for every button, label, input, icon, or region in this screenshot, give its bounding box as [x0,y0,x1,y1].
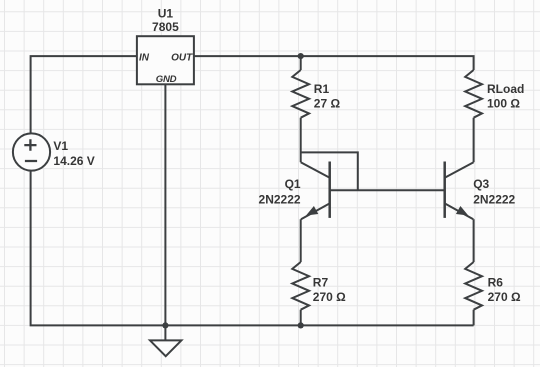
svg-text:270 Ω: 270 Ω [488,290,521,304]
svg-text:14.26 V: 14.26 V [53,154,94,168]
svg-text:R6: R6 [488,275,504,289]
svg-text:R7: R7 [313,275,329,289]
svg-text:100 Ω: 100 Ω [487,97,520,111]
svg-text:RLoad: RLoad [487,82,524,96]
svg-text:V1: V1 [53,139,68,153]
svg-text:2N2222: 2N2222 [259,193,301,207]
svg-text:U1: U1 [158,6,174,20]
svg-text:7805: 7805 [152,20,179,34]
svg-text:GND: GND [156,74,177,85]
svg-text:Q1: Q1 [285,177,301,191]
svg-text:R1: R1 [314,82,330,96]
svg-text:27 Ω: 27 Ω [314,97,341,111]
svg-text:270 Ω: 270 Ω [313,290,346,304]
svg-text:Q3: Q3 [473,177,489,191]
svg-text:OUT: OUT [171,53,193,64]
svg-text:2N2222: 2N2222 [473,193,515,207]
svg-text:IN: IN [139,53,150,64]
